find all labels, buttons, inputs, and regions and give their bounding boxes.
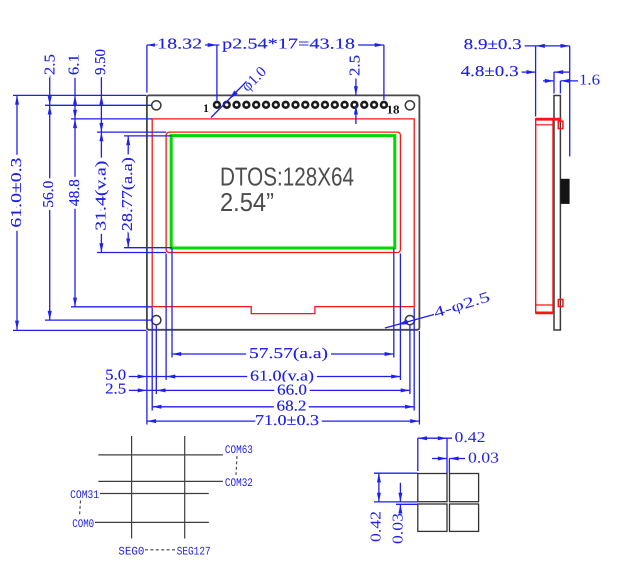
svg-text:SEG127: SEG127	[177, 545, 211, 558]
svg-text:0.03: 0.03	[391, 513, 407, 544]
svg-text:0.42: 0.42	[369, 511, 385, 542]
svg-text:COM31: COM31	[70, 489, 99, 502]
svg-text:2.54”: 2.54”	[220, 187, 274, 217]
svg-text:p2.54*17=43.18: p2.54*17=43.18	[222, 37, 355, 53]
svg-text:18: 18	[387, 102, 400, 116]
svg-text:COM63: COM63	[225, 444, 253, 457]
svg-text:9.50: 9.50	[93, 49, 109, 75]
svg-text:61.0±0.3: 61.0±0.3	[9, 158, 25, 228]
svg-text:18.32: 18.32	[157, 37, 202, 53]
svg-text:56.0: 56.0	[41, 181, 57, 208]
svg-text:48.8: 48.8	[67, 179, 83, 206]
svg-text:2.5: 2.5	[105, 381, 126, 397]
svg-text:57.57(a.a): 57.57(a.a)	[249, 346, 328, 362]
svg-text:0.42: 0.42	[455, 430, 486, 446]
svg-text:66.0: 66.0	[277, 382, 307, 398]
svg-text:COM0: COM0	[72, 518, 94, 531]
svg-text:COM32: COM32	[225, 477, 253, 490]
svg-text:6.1: 6.1	[67, 54, 83, 75]
svg-text:28.77(a.a): 28.77(a.a)	[120, 157, 136, 231]
svg-text:2.5: 2.5	[348, 55, 364, 76]
svg-text:2.5: 2.5	[42, 54, 58, 75]
svg-text:4.8±0.3: 4.8±0.3	[461, 64, 519, 80]
svg-text:8.9±0.3: 8.9±0.3	[464, 37, 522, 53]
svg-text:1: 1	[203, 103, 209, 115]
svg-text:31.4(v.a): 31.4(v.a)	[93, 161, 109, 231]
svg-text:71.0±0.3: 71.0±0.3	[255, 413, 319, 429]
svg-text:1.6: 1.6	[579, 73, 601, 89]
svg-text:SEG0: SEG0	[118, 545, 144, 558]
svg-text:0.03: 0.03	[468, 451, 499, 467]
